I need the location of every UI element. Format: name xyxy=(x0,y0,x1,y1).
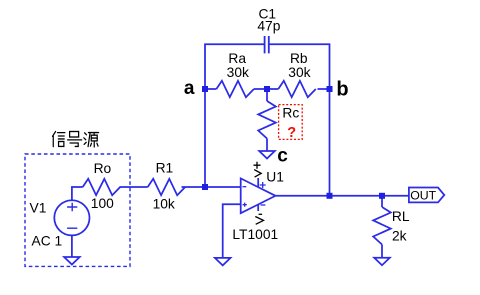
svg-text:47p: 47p xyxy=(257,18,280,33)
svg-text:R1: R1 xyxy=(156,161,174,176)
wire R1 to op-amp inverting input xyxy=(182,186,241,188)
port OUT flag xyxy=(409,188,444,203)
op-amp V- label minus xyxy=(259,213,263,215)
svg-text:b: b xyxy=(336,78,348,100)
node b junction square xyxy=(327,86,333,92)
op-amp U1 triangle xyxy=(241,178,276,213)
wire node b down to output xyxy=(329,89,331,196)
resistor R1 xyxy=(148,179,185,195)
op-amp V- supply pin stub xyxy=(257,204,259,211)
svg-text:Rc: Rc xyxy=(282,106,299,121)
op-amp V+ supply pin stub xyxy=(257,178,259,187)
svg-text:RL: RL xyxy=(392,209,410,224)
svg-text:2k: 2k xyxy=(392,228,407,243)
capacitor C1 xyxy=(265,36,269,53)
dashed source box 信号源 xyxy=(25,154,130,266)
wire output junction down to RL xyxy=(381,196,383,207)
svg-text:Rb: Rb xyxy=(290,51,308,66)
wire top rail left (node a up to C1 left plate) xyxy=(205,44,265,89)
svg-text:Ro: Ro xyxy=(94,161,112,176)
wire Rc to ground c xyxy=(266,139,268,152)
wire RL to ground xyxy=(381,245,383,258)
svg-text:30k: 30k xyxy=(288,65,310,80)
svg-text:c: c xyxy=(277,146,288,167)
svg-text:100: 100 xyxy=(91,196,114,211)
wire Rb to node b xyxy=(318,88,330,90)
op-amp supply plus mark xyxy=(260,182,266,188)
node mid junction square xyxy=(264,86,270,92)
resistor Rc xyxy=(258,101,276,139)
svg-text:OUT: OUT xyxy=(410,188,436,202)
resistor Ro xyxy=(83,179,121,195)
node RL junction square xyxy=(379,193,385,199)
ground node c xyxy=(259,151,275,159)
ground below V1 xyxy=(64,257,80,265)
ground below RL xyxy=(374,258,390,266)
ground below op-amp xyxy=(215,258,231,266)
wire Ro to R1 xyxy=(120,186,148,188)
wire V1 top to Ro xyxy=(72,187,83,200)
svg-text:a: a xyxy=(184,78,195,99)
V1 minus sign xyxy=(67,227,77,229)
svg-text:AC 1: AC 1 xyxy=(32,234,63,249)
node feedback/output junction square xyxy=(327,193,333,199)
resistor Rb xyxy=(278,81,316,97)
wire node a down to R1 junction xyxy=(204,89,206,187)
wire op-amp output to OUT port xyxy=(276,195,409,197)
wire Ra to mid node xyxy=(254,88,267,90)
wire top rail right (C1 right plate to node b) xyxy=(269,44,330,89)
dashed red box around Rc xyxy=(279,105,303,140)
svg-text:V1: V1 xyxy=(30,200,47,215)
op-amp inverting input minus mark xyxy=(243,186,247,188)
op-amp V+ label chevron xyxy=(254,170,261,178)
wire V1 bottom to ground xyxy=(71,235,73,257)
op-amp non-inverting input plus mark xyxy=(243,203,247,207)
V1 plus sign xyxy=(67,203,77,211)
op-amp V- label chevron xyxy=(255,217,263,225)
resistor RL xyxy=(373,207,391,244)
svg-text:Ra: Ra xyxy=(228,51,246,66)
text 信号源 (signal source) drawn as strokes xyxy=(53,132,99,147)
op-amp supply minus mark xyxy=(261,204,266,206)
svg-text:?: ? xyxy=(287,125,296,141)
svg-text:U1: U1 xyxy=(266,170,284,185)
node R1/inverting-input junction square xyxy=(202,184,208,190)
resistor Ra xyxy=(216,81,253,97)
wire non-inverting input to ground xyxy=(223,204,241,258)
wire mid node down to Rc xyxy=(266,89,268,101)
voltage source V1 xyxy=(54,200,89,235)
op-amp V+ label plus xyxy=(254,162,261,169)
svg-text:30k: 30k xyxy=(227,65,249,80)
svg-text:10k: 10k xyxy=(153,197,175,212)
node a junction square xyxy=(202,86,208,92)
wire node a to Ra xyxy=(205,88,216,90)
svg-text:LT1001: LT1001 xyxy=(232,227,278,242)
wire mid node to Rb xyxy=(267,88,278,90)
